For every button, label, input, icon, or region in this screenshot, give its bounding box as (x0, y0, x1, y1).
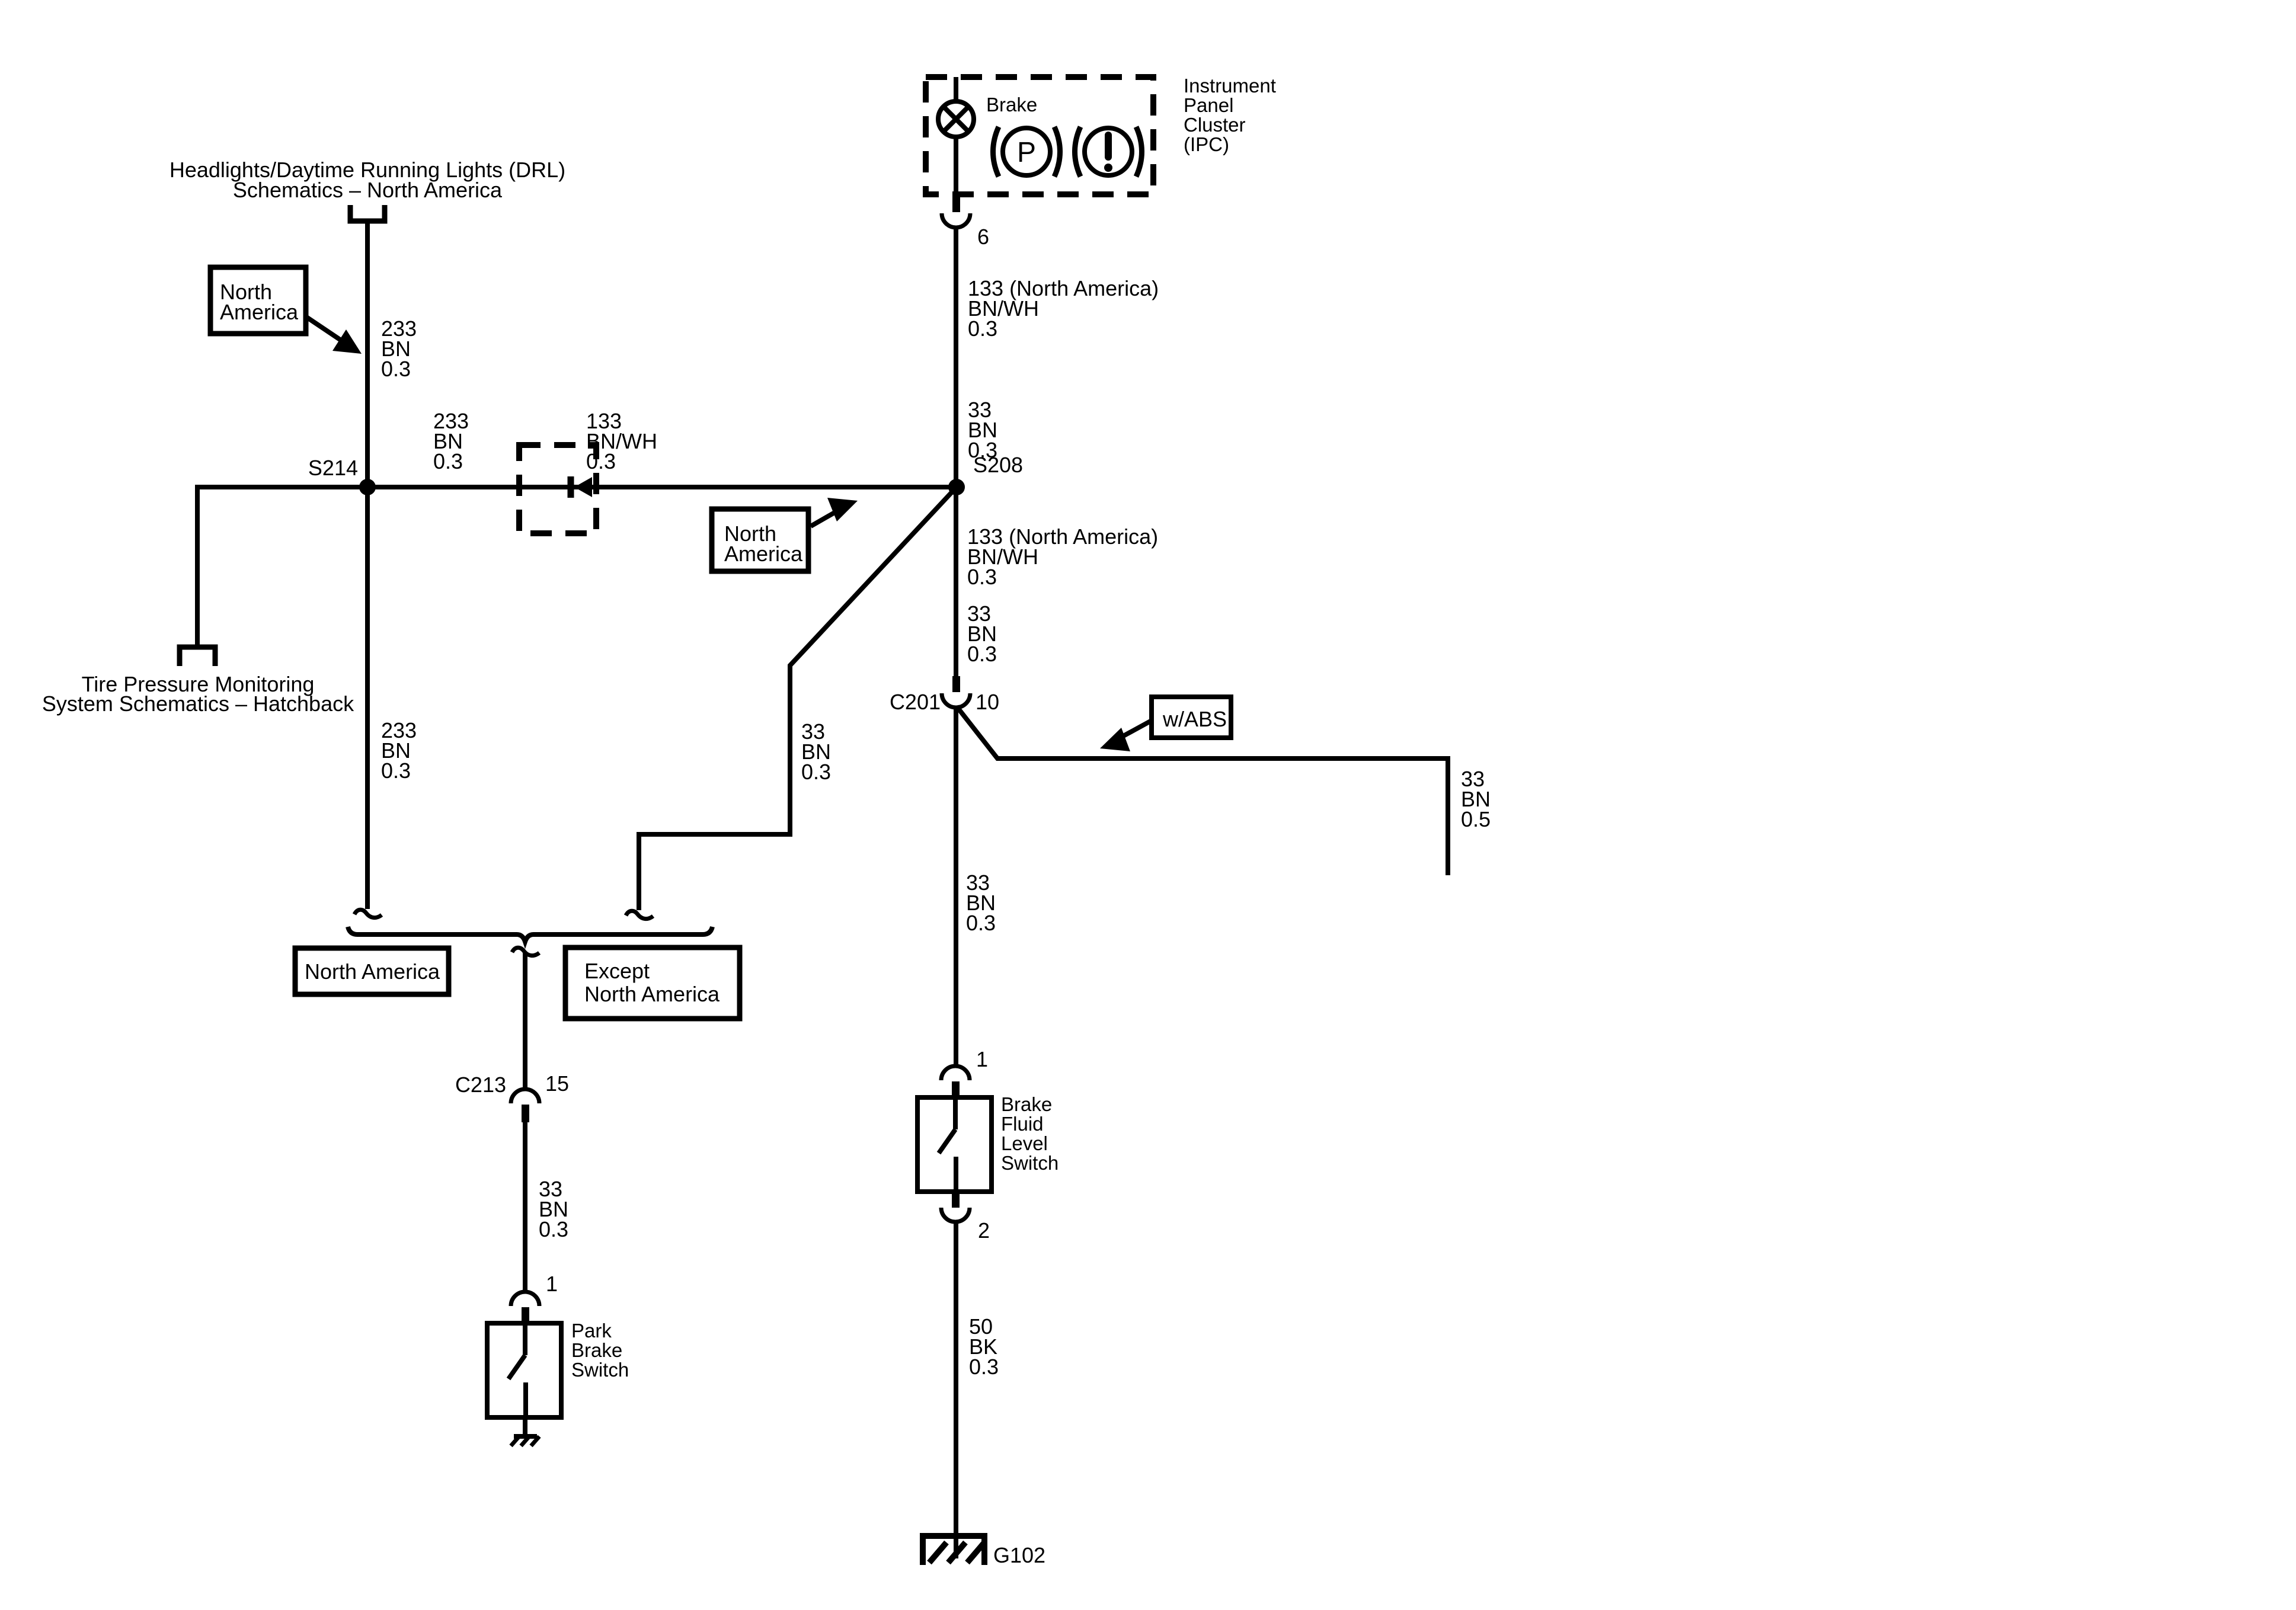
wire label 33 BN 0.3 (diagonal branch) (801, 719, 831, 784)
svg-text:Panel: Panel (1184, 94, 1233, 116)
connector pin 2 (brake fluid level switch) (941, 1192, 970, 1222)
connector C201 pin 10 (942, 676, 970, 708)
wire label 233 BN 0.3 (S214-S208) (433, 409, 469, 473)
wire label 33 BN 0.3 (park brake) (539, 1177, 568, 1241)
svg-text:10: 10 (976, 690, 999, 714)
splice hook left (354, 910, 382, 917)
svg-text:Brake: Brake (571, 1339, 622, 1361)
brake fluid level switch box (917, 1097, 992, 1192)
label Brake Fluid Level Switch (1001, 1093, 1059, 1174)
svg-text:0.3: 0.3 (968, 316, 997, 341)
svg-text:America: America (220, 300, 299, 324)
label Park Brake Switch (571, 1320, 629, 1381)
svg-text:Park: Park (571, 1320, 612, 1342)
wire park brake switch to ground (523, 1417, 527, 1435)
svg-text:0.3: 0.3 (967, 565, 997, 589)
arrow from North America box to wire (306, 317, 362, 354)
wire lamp to pin 6 (954, 137, 958, 197)
svg-text:C213: C213 (455, 1073, 506, 1097)
label box w/ABS (1152, 697, 1231, 738)
svg-text:P: P (1017, 137, 1036, 168)
svg-text:Level: Level (1001, 1132, 1048, 1154)
svg-text:1: 1 (546, 1272, 558, 1296)
wire label 33 BN 0.3 (below S208) (967, 601, 997, 666)
indicator (P) brake telltale (993, 127, 1060, 177)
instrument panel cluster dashed box (926, 77, 1153, 194)
arrow from middle North America box to S208 wire (811, 498, 858, 526)
svg-text:Brake: Brake (1001, 1093, 1052, 1115)
wire DRL drop to S214 (365, 221, 370, 487)
wire label 133 (North America) BN/WH 0.3 (below S208) (967, 524, 1158, 589)
label box North America (upper left) (210, 267, 306, 334)
wire S214 horizontal run (197, 485, 957, 489)
svg-text:0.3: 0.3 (381, 357, 411, 381)
svg-text:Cluster: Cluster (1184, 114, 1246, 136)
svg-text:Instrument: Instrument (1184, 75, 1276, 97)
wire label 33 BN 0.3 (above S208) (968, 398, 997, 462)
wire S208 diagonal step down to merge brace (639, 487, 957, 910)
splice hook center (512, 948, 539, 955)
park brake switch box (487, 1323, 561, 1417)
wire S214 down to merge brace (365, 487, 370, 909)
svg-text:America: America (724, 542, 803, 566)
svg-text:2: 2 (978, 1218, 990, 1243)
wire label 33 BN 0.3 (brake fluid feed) (966, 870, 996, 935)
wire label 33 BN 0.5 (1461, 767, 1491, 831)
svg-text:S214: S214 (308, 456, 358, 480)
svg-text:System Schematics – Hatchback: System Schematics – Hatchback (42, 692, 354, 716)
wire brake fluid switch to G102 (954, 1221, 958, 1558)
svg-text:1: 1 (976, 1047, 988, 1071)
svg-text:0.3: 0.3 (967, 642, 997, 666)
indicator (!) brake warning telltale (1075, 127, 1142, 177)
node S208 (948, 479, 965, 495)
diode in fuse block (571, 476, 592, 498)
wire label 133 BN/WH 0.3 (right of diode box) (586, 409, 657, 473)
svg-text:0.3: 0.3 (801, 760, 831, 784)
wire C201-10 to w/ABS run to connector E (957, 706, 1448, 875)
svg-text:Brake: Brake (986, 94, 1037, 116)
svg-text:Switch: Switch (1001, 1152, 1059, 1174)
svg-text:15: 15 (545, 1071, 569, 1096)
splice hook right (626, 911, 653, 918)
svg-text:Schematics – North America: Schematics – North America (233, 178, 503, 202)
svg-text:0.3: 0.3 (586, 449, 616, 473)
wire label 233 BN 0.3 (DRL drop) (381, 316, 417, 381)
off-page bracket Tire Pressure (180, 647, 215, 666)
svg-text:North America: North America (305, 959, 440, 984)
wire into IPC brake lamp (954, 77, 958, 102)
wire left branch down from S214 (195, 485, 200, 646)
merge brace (348, 927, 712, 942)
wire brace to C213 (523, 953, 527, 1090)
svg-text:C201: C201 (890, 690, 941, 714)
wire label 133 (North America) BN/WH 0.3 (above S208) (968, 276, 1159, 341)
arrow from w/ABS box to wire (1100, 721, 1152, 751)
svg-text:G102: G102 (993, 1543, 1045, 1567)
svg-text:Switch: Switch (571, 1359, 629, 1381)
ground G102 (920, 1536, 987, 1565)
connector C213 pin 15 (511, 1089, 539, 1122)
svg-text:0.3: 0.3 (433, 449, 463, 473)
ground (park brake switch) (511, 1436, 539, 1446)
wire IPC pin6 down through S208 to C201-10 (954, 228, 958, 676)
svg-text:6: 6 (977, 225, 989, 249)
label Instrument Panel Cluster (IPC) (1184, 75, 1276, 155)
svg-text:(IPC): (IPC) (1184, 133, 1229, 155)
label box North America (middle) (712, 509, 808, 571)
svg-text:0.3: 0.3 (381, 758, 411, 783)
svg-text:0.3: 0.3 (539, 1217, 568, 1241)
connector pin 1 (park brake switch) (511, 1292, 539, 1323)
wire label 50 BK 0.3 (969, 1314, 999, 1379)
svg-text:0.5: 0.5 (1461, 807, 1491, 831)
svg-text:w/ABS: w/ABS (1162, 707, 1227, 731)
svg-text:Except: Except (584, 959, 650, 983)
label box North America (bottom) (295, 948, 449, 994)
wire C213 to park brake switch (523, 1122, 527, 1291)
svg-text:North America: North America (584, 982, 720, 1006)
fuse block I/P dashed box (diode) (519, 445, 596, 533)
label box Except North America (565, 948, 740, 1019)
svg-text:Fluid: Fluid (1001, 1113, 1044, 1135)
connector pin 1 (brake fluid level switch) (941, 1066, 970, 1097)
wire C201-10 down to brake fluid level switch (954, 708, 958, 1066)
svg-text:0.3: 0.3 (968, 438, 997, 462)
off-page bracket DRL (350, 205, 385, 221)
svg-text:0.3: 0.3 (969, 1355, 999, 1379)
wire label 233 BN 0.3 (S214 down branch) (381, 718, 417, 783)
lamp Brake (circle with X) (938, 101, 974, 137)
svg-text:0.3: 0.3 (966, 911, 996, 935)
connector pin 6 (IPC) (942, 197, 970, 228)
